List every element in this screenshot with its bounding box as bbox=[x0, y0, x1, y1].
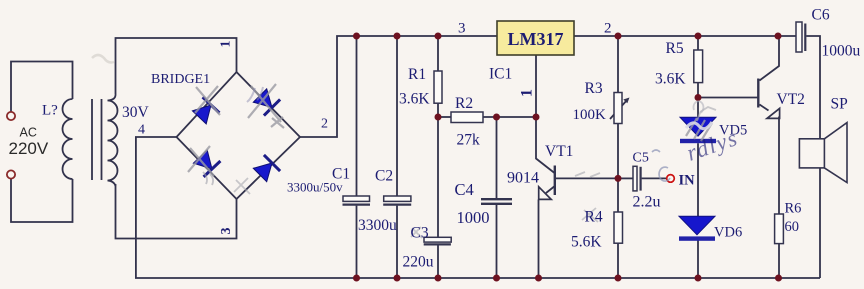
svg-text:VT1: VT1 bbox=[545, 143, 573, 160]
svg-text:C4: C4 bbox=[455, 180, 474, 199]
svg-text:2.2u: 2.2u bbox=[633, 194, 661, 211]
svg-text:LM317: LM317 bbox=[508, 29, 564, 49]
svg-text:3.6K: 3.6K bbox=[655, 71, 686, 88]
svg-text:R4: R4 bbox=[585, 209, 603, 226]
svg-text:3.6K: 3.6K bbox=[399, 91, 430, 108]
svg-text:3300u: 3300u bbox=[358, 217, 397, 234]
svg-text:3: 3 bbox=[458, 21, 466, 37]
svg-text:3300u/50v: 3300u/50v bbox=[287, 180, 343, 195]
svg-text:IN: IN bbox=[679, 173, 696, 189]
svg-text:220u: 220u bbox=[403, 254, 434, 271]
svg-text:1: 1 bbox=[519, 89, 536, 97]
svg-text:27k: 27k bbox=[457, 132, 481, 149]
svg-text:R5: R5 bbox=[666, 40, 684, 57]
svg-text:9014: 9014 bbox=[507, 170, 539, 187]
svg-text:R3: R3 bbox=[585, 80, 603, 97]
svg-text:1000u: 1000u bbox=[822, 43, 861, 60]
svg-text:2: 2 bbox=[604, 21, 612, 37]
svg-text:AC: AC bbox=[20, 126, 37, 140]
svg-text:4: 4 bbox=[138, 123, 145, 138]
svg-text:5.6K: 5.6K bbox=[571, 234, 602, 251]
svg-text:1000: 1000 bbox=[457, 208, 490, 227]
svg-text:C2: C2 bbox=[375, 168, 393, 185]
svg-text:VT2: VT2 bbox=[777, 91, 805, 108]
svg-text:C5: C5 bbox=[633, 151, 649, 166]
svg-text:220V: 220V bbox=[9, 139, 49, 158]
svg-text:SP: SP bbox=[831, 96, 848, 113]
svg-text:L?: L? bbox=[42, 103, 58, 119]
svg-text:C6: C6 bbox=[812, 7, 830, 24]
svg-text:3: 3 bbox=[219, 228, 234, 235]
svg-text:C3: C3 bbox=[411, 225, 429, 242]
svg-text:BRIDGE1: BRIDGE1 bbox=[151, 72, 210, 87]
svg-text:R1: R1 bbox=[408, 66, 426, 83]
svg-text:VD5: VD5 bbox=[719, 123, 747, 139]
svg-text:60: 60 bbox=[785, 219, 800, 235]
svg-text:100K: 100K bbox=[573, 107, 607, 123]
svg-text:1: 1 bbox=[219, 41, 234, 48]
svg-text:VD6: VD6 bbox=[714, 225, 742, 241]
svg-text:2: 2 bbox=[321, 117, 328, 132]
svg-text:R6: R6 bbox=[785, 201, 802, 217]
svg-text:R2: R2 bbox=[455, 95, 473, 112]
svg-text:30V: 30V bbox=[122, 104, 150, 121]
svg-text:IC1: IC1 bbox=[489, 66, 512, 83]
